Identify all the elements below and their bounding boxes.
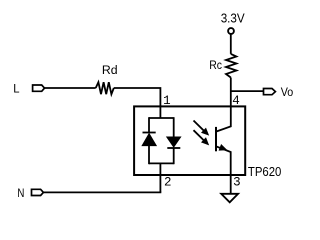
wire circle to Rc: [230, 34, 232, 54]
wire Rd to pin 1: [114, 88, 161, 118]
svg-text:N: N: [17, 186, 24, 200]
LED light arrow 1: [194, 121, 206, 132]
resistor Rd: [96, 82, 114, 94]
pin 2 wire: [159, 163, 161, 192]
ground symbol: [221, 194, 238, 203]
phototransistor Q1 collector: [216, 106, 231, 131]
svg-text:3.3V: 3.3V: [221, 11, 246, 25]
diode D2 (right, pointing down) wire top: [173, 117, 175, 137]
phototransistor Q1 emitter arrowhead: [219, 145, 226, 150]
svg-text:1: 1: [163, 94, 171, 108]
phototransistor Q1 emitter: [216, 146, 231, 194]
optocoupler U1 box TP620: [134, 106, 245, 175]
phototransistor Q1 base bar: [215, 127, 217, 151]
svg-text:4: 4: [232, 94, 240, 108]
diode D2 wire bottom: [173, 148, 175, 164]
diode D2 triangle: [167, 137, 181, 147]
svg-text:Rc: Rc: [209, 58, 222, 72]
wire Rc to pin 4: [230, 78, 232, 107]
power terminal circle 3.3V: [228, 28, 234, 34]
resistor Rc: [226, 54, 236, 78]
terminal Vo: [264, 89, 276, 95]
wire L to Rd: [45, 87, 96, 89]
wire Vo branch: [231, 90, 264, 92]
diode D1 wire bottom: [148, 146, 150, 165]
svg-text:L: L: [13, 82, 19, 96]
svg-text:Vo: Vo: [281, 85, 294, 99]
diode D2 anode bar: [167, 147, 180, 149]
svg-text:Rd: Rd: [102, 63, 118, 77]
svg-text:TP620: TP620: [248, 164, 282, 179]
diode D1 triangle: [142, 134, 156, 146]
svg-text:2: 2: [164, 175, 172, 189]
wire N to pin 2: [43, 191, 161, 193]
diode network bottom rail: [149, 162, 174, 164]
diode D1 cathode bar: [143, 132, 156, 134]
terminal L: [33, 85, 45, 91]
svg-text:3: 3: [233, 176, 241, 190]
diode D1 (left, pointing up) wire top: [148, 117, 150, 132]
diode network top rail: [149, 117, 174, 119]
terminal N: [32, 189, 44, 195]
LED light arrow 2: [194, 130, 206, 141]
